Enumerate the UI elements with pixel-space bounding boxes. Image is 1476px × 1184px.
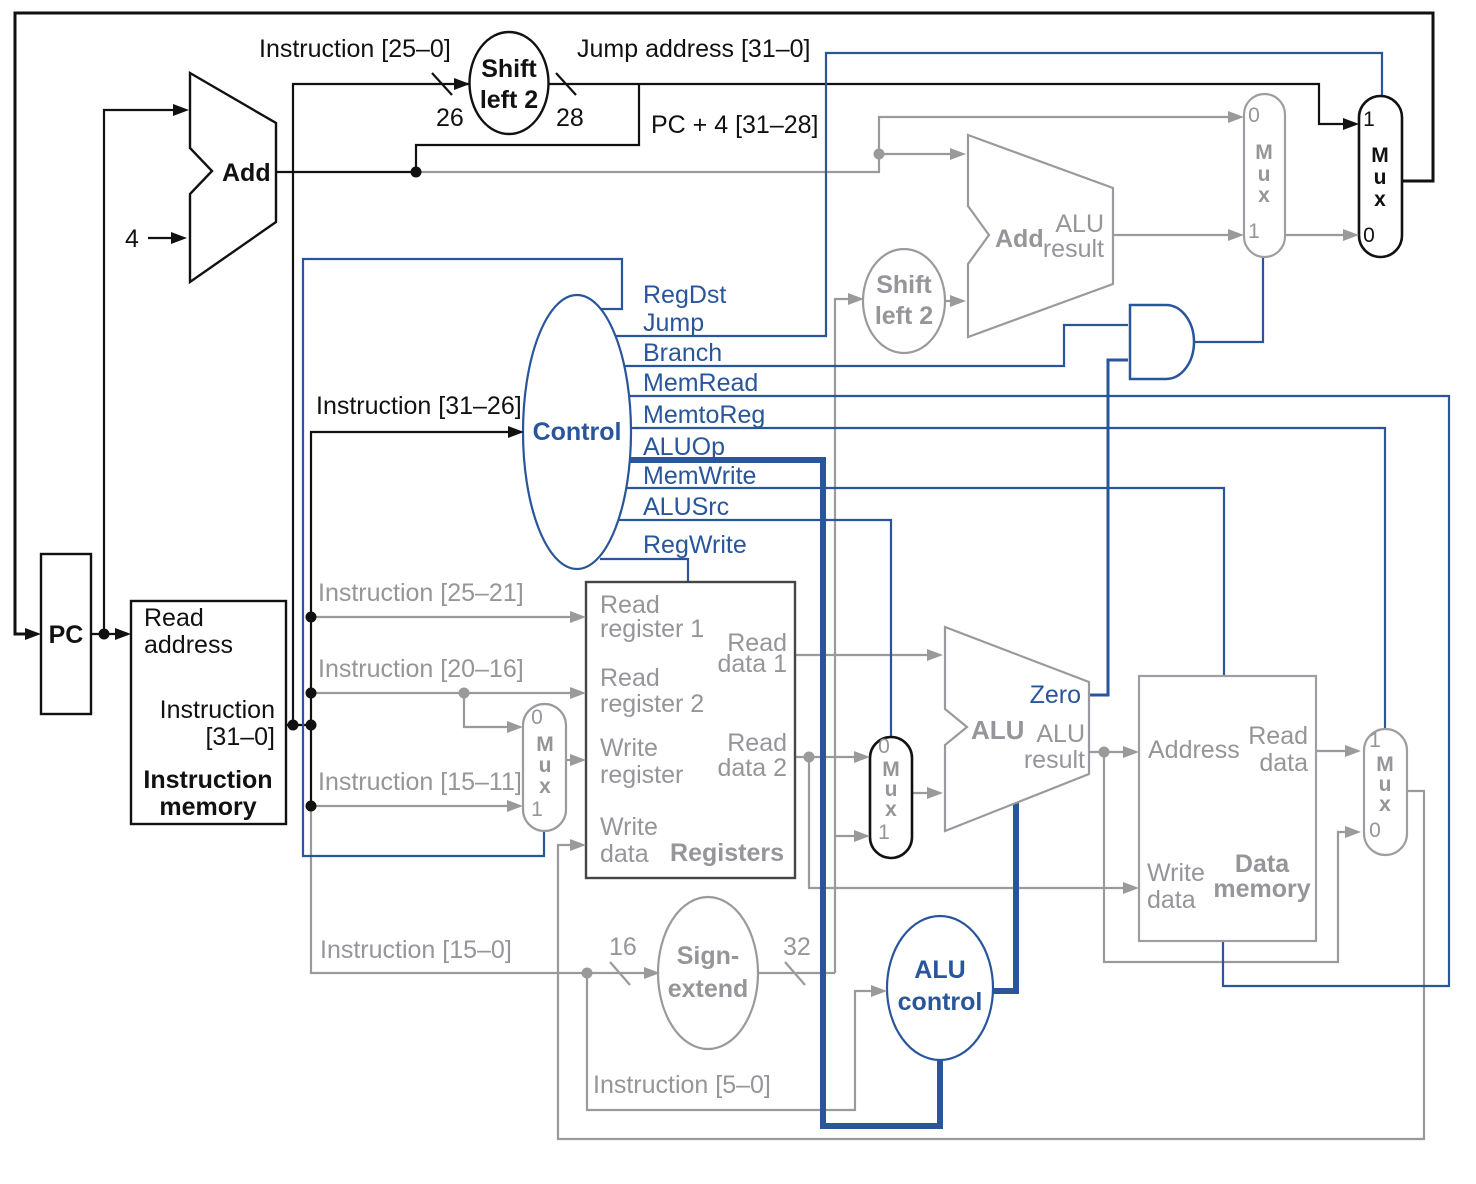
wire: MemWrite control signal to data memory bbox=[570, 488, 1224, 676]
arrowhead: into read register 1 bbox=[570, 611, 586, 623]
wire: Branch control signal to AND gate bbox=[566, 325, 1128, 366]
wire: write-back loop from final mux to registers write data bbox=[558, 791, 1424, 1139]
svg-text:RegWrite: RegWrite bbox=[643, 531, 747, 559]
final write-back mux (MemtoReg, gray) bbox=[1364, 729, 1407, 855]
arrowhead: instruction[5-0] into ALU control bbox=[871, 985, 887, 997]
branch adder (gray ALU shape) bbox=[968, 135, 1113, 337]
svg-text:Shift: Shift bbox=[876, 271, 932, 299]
wire: write-register mux output to Registers bbox=[566, 759, 582, 761]
write-register mux (RegDst) bbox=[523, 704, 566, 831]
junction: PC output bbox=[99, 629, 110, 640]
bus width slash 26 bbox=[432, 73, 452, 95]
svg-text:Control: Control bbox=[533, 418, 622, 446]
wire: Jump control signal to jump mux select bbox=[560, 53, 1382, 336]
bus width slash 32 bbox=[785, 962, 805, 985]
branch mux (gray) bbox=[1244, 94, 1285, 257]
svg-text:Add: Add bbox=[222, 159, 271, 187]
svg-text:Instruction [20–16]: Instruction [20–16] bbox=[318, 655, 524, 683]
arrowhead: instruction[25-0] into jump shift left 2 bbox=[454, 78, 470, 90]
junction: instruction[20-16] tap bbox=[306, 688, 317, 699]
junction: instruction[20-16] branch bbox=[459, 688, 470, 699]
svg-text:0: 0 bbox=[531, 706, 543, 729]
svg-text:left 2: left 2 bbox=[875, 302, 933, 330]
svg-text:Address: Address bbox=[1148, 736, 1240, 764]
svg-text:Shift: Shift bbox=[481, 55, 537, 83]
arrowhead: read data into final mux input 1 bbox=[1345, 745, 1361, 757]
wire: ALUOp thick control bus to ALU control bbox=[600, 460, 940, 1126]
svg-text:M: M bbox=[1255, 141, 1273, 164]
junction: read data 2 fan-out bbox=[804, 752, 815, 763]
arrowhead: PC+4 into branch mux input 0 bbox=[1228, 111, 1244, 123]
svg-text:memory: memory bbox=[159, 793, 256, 821]
wire: Instruction[20-16] to read register 2 bbox=[311, 692, 582, 694]
arrowhead: into branch shift left 2 bbox=[848, 293, 864, 305]
PC register bbox=[41, 554, 91, 714]
jump mux (black) bbox=[1359, 96, 1402, 257]
svg-text:Read: Read bbox=[600, 664, 660, 692]
svg-text:left 2: left 2 bbox=[480, 86, 538, 114]
svg-text:Instruction [25–21]: Instruction [25–21] bbox=[318, 579, 524, 607]
junction: instruction[15-11] tap bbox=[306, 801, 317, 812]
svg-text:address: address bbox=[144, 631, 233, 659]
AND gate for branch bbox=[1130, 305, 1194, 379]
wire: riser tap to ALUSrc mux input 1 bbox=[835, 835, 866, 837]
wire: ALU result to data memory address bbox=[1080, 751, 1135, 753]
wire: riser from sign-extend up to branch shift-left-2 bbox=[835, 299, 855, 973]
wire: RegWrite control signal to Registers bbox=[600, 559, 688, 582]
shift left 2 ellipse (branch, gray) bbox=[863, 249, 945, 353]
wire: RegDst control signal to write-register mux select bbox=[303, 259, 622, 856]
svg-text:x: x bbox=[1379, 793, 1391, 816]
junction: instruction[15-0] fan-out bbox=[582, 968, 593, 979]
wire: constant 4 into adder bbox=[148, 237, 183, 239]
svg-text:register: register bbox=[600, 761, 683, 789]
svg-text:32: 32 bbox=[783, 933, 811, 961]
svg-text:Data: Data bbox=[1235, 850, 1290, 878]
wire: MemRead control signal to data memory bbox=[570, 396, 1449, 986]
svg-text:26: 26 bbox=[436, 104, 464, 132]
svg-text:RegDst: RegDst bbox=[643, 281, 726, 309]
arrowhead: into write-register mux input 1 bbox=[507, 800, 523, 812]
svg-text:1: 1 bbox=[1248, 220, 1260, 243]
svg-text:x: x bbox=[539, 775, 551, 798]
sign-extend ellipse bbox=[658, 897, 758, 1049]
svg-text:extend: extend bbox=[668, 975, 749, 1003]
svg-text:Instruction: Instruction bbox=[143, 766, 272, 794]
arrowhead: instruction[15-0] into sign-extend bbox=[644, 967, 660, 979]
svg-text:Instruction [15–0]: Instruction [15–0] bbox=[320, 936, 512, 964]
arrowhead: into read register 2 bbox=[570, 687, 586, 699]
arrowhead: sign-extend into ALUSrc mux input 1 bbox=[854, 830, 870, 842]
wire: Instruction[31-26] to Control bbox=[311, 432, 516, 806]
junction: PC+4 to branch adder bbox=[874, 149, 885, 160]
svg-text:Write: Write bbox=[1147, 859, 1205, 887]
svg-text:PC + 4 [31–28]: PC + 4 [31–28] bbox=[651, 111, 818, 139]
svg-text:x: x bbox=[1258, 184, 1270, 207]
svg-text:u: u bbox=[1258, 163, 1271, 186]
svg-text:1: 1 bbox=[1369, 729, 1381, 752]
arrowhead: 4 into adder bbox=[171, 232, 187, 244]
wire: Instruction[25-0] from instruction fetch up to shift-left-2 bbox=[293, 84, 485, 725]
arrowhead: mux output into write register bbox=[570, 754, 586, 766]
svg-text:Branch: Branch bbox=[643, 339, 722, 367]
svg-text:M: M bbox=[536, 733, 554, 756]
svg-text:0: 0 bbox=[1363, 224, 1375, 247]
wire: jump address from shift-left-2 to jump mux input 1 bbox=[535, 84, 1355, 124]
wire: read data 2 tap down to data memory write data bbox=[809, 757, 1135, 888]
svg-text:u: u bbox=[1374, 166, 1387, 189]
svg-text:control: control bbox=[898, 988, 983, 1016]
wire: ALUSrc mux output to ALU bbox=[912, 792, 939, 794]
instruction memory box bbox=[131, 601, 286, 824]
svg-text:1: 1 bbox=[1363, 108, 1375, 131]
wire: ALU control output thick bus to ALU bbox=[980, 790, 1016, 991]
arrowhead: into write-register mux input 0 bbox=[507, 721, 523, 733]
data memory box bbox=[1139, 676, 1316, 941]
arrowhead: instruction[31-26] into control bbox=[508, 426, 524, 438]
svg-text:Sign-: Sign- bbox=[677, 942, 740, 970]
wire: ALUSrc control signal to ALUSrc mux select bbox=[566, 520, 891, 745]
wire: PC update loop from jump mux output around top border to PC input bbox=[15, 13, 1433, 634]
arrowhead: read data 1 into ALU bbox=[927, 649, 943, 661]
wire: sign-extend output to riser bbox=[700, 972, 835, 974]
svg-text:Jump: Jump bbox=[643, 309, 704, 337]
svg-text:Registers: Registers bbox=[670, 839, 784, 867]
wire: read data 2 to ALUSrc mux input 0 bbox=[795, 756, 866, 758]
svg-text:memory: memory bbox=[1213, 875, 1310, 903]
arrowhead: branch target into branch mux input 1 bbox=[1228, 229, 1244, 241]
svg-text:ALUOp: ALUOp bbox=[643, 433, 725, 461]
arrowhead: ALU result into address bbox=[1123, 746, 1139, 758]
arrowhead: into instruction memory read address bbox=[115, 628, 131, 640]
wire: Instruction[20-16] branch to write-register mux input 0 bbox=[464, 693, 519, 727]
junction: PC+4 fan-out bbox=[411, 167, 422, 178]
svg-text:MemWrite: MemWrite bbox=[643, 462, 756, 490]
svg-text:Instruction [31–26]: Instruction [31–26] bbox=[316, 392, 522, 420]
wire: ALU result bypass to final mux input 0 bbox=[1104, 752, 1357, 962]
wire: Zero flag from ALU to AND gate bbox=[1080, 360, 1128, 695]
arrowhead: PC into adder top input bbox=[173, 104, 189, 116]
svg-text:ALU: ALU bbox=[1055, 210, 1104, 238]
ALUSrc mux (black) bbox=[870, 737, 912, 858]
svg-text:data: data bbox=[600, 840, 649, 868]
wire: PC tap up to PC+4 adder top input bbox=[104, 110, 185, 634]
svg-text:ALUSrc: ALUSrc bbox=[643, 493, 729, 521]
arrowhead: write-back into write data bbox=[570, 839, 586, 851]
arrowhead: into PC bbox=[25, 628, 41, 640]
svg-text:result: result bbox=[1043, 235, 1104, 263]
svg-text:Zero: Zero bbox=[1030, 681, 1081, 709]
wire: PC output to instruction memory read address bbox=[91, 633, 128, 635]
svg-text:Write: Write bbox=[600, 734, 658, 762]
bus width slash 28 bbox=[556, 73, 576, 95]
svg-text:x: x bbox=[885, 798, 897, 821]
svg-text:28: 28 bbox=[556, 104, 584, 132]
ALU (gray trapezoid) bbox=[945, 627, 1089, 831]
shift left 2 ellipse (jump, black) bbox=[470, 32, 549, 134]
svg-text:0: 0 bbox=[1248, 104, 1260, 127]
wire: branch mux output to jump mux input 0 bbox=[1285, 234, 1355, 236]
wire: PC+4 adder output (black) to junction bbox=[276, 171, 416, 173]
svg-text:PC: PC bbox=[49, 621, 84, 649]
wire: Instruction[15-0] down and to sign-extend bbox=[311, 806, 656, 973]
svg-text:data 2: data 2 bbox=[717, 754, 787, 782]
svg-text:Instruction [15–11]: Instruction [15–11] bbox=[318, 768, 522, 796]
junction: instruction bus tap B bbox=[306, 720, 317, 731]
adder PC+4 (black ALU shape) bbox=[190, 73, 276, 282]
svg-text:ALU: ALU bbox=[914, 956, 965, 984]
svg-text:ALU: ALU bbox=[971, 715, 1024, 745]
svg-text:x: x bbox=[1374, 188, 1386, 211]
svg-text:16: 16 bbox=[609, 933, 637, 961]
wire: PC+4[31-28] elbow up to jump address line bbox=[416, 84, 639, 171]
wire: branch shift-left-2 output into gray adder bbox=[920, 300, 962, 302]
svg-text:result: result bbox=[1024, 746, 1085, 774]
wire: read data 1 to ALU bbox=[795, 654, 939, 656]
svg-text:4: 4 bbox=[125, 225, 139, 253]
svg-text:Instruction: Instruction bbox=[160, 696, 275, 724]
ALU control ellipse bbox=[887, 916, 993, 1060]
svg-text:register 2: register 2 bbox=[600, 690, 704, 718]
bus width slash 16 bbox=[610, 962, 630, 985]
junction: ALU result fan-out bbox=[1099, 747, 1110, 758]
svg-text:0: 0 bbox=[878, 735, 890, 758]
svg-text:M: M bbox=[1371, 144, 1389, 167]
svg-text:Read: Read bbox=[1248, 722, 1308, 750]
arrowhead: read data 2 into ALUSrc mux input 0 bbox=[854, 751, 870, 763]
svg-text:Write: Write bbox=[600, 813, 658, 841]
arrowhead: PC+4 into branch adder top bbox=[950, 148, 966, 160]
svg-text:[31–0]: [31–0] bbox=[205, 723, 275, 751]
wire: PC+4 branch into gray adder top input bbox=[879, 153, 962, 155]
arrowhead: branch mux output into jump mux input 0 bbox=[1343, 229, 1359, 241]
svg-text:data: data bbox=[1259, 749, 1308, 777]
wire: gray adder ALU result to branch mux input 1 bbox=[1113, 234, 1240, 236]
svg-text:Add: Add bbox=[995, 225, 1044, 253]
wire: AND gate output to branch mux select bbox=[1194, 250, 1263, 342]
control unit ellipse bbox=[523, 295, 631, 569]
svg-text:register 1: register 1 bbox=[600, 615, 704, 643]
svg-text:0: 0 bbox=[1369, 819, 1381, 842]
svg-text:Read: Read bbox=[144, 604, 204, 632]
wire: data memory read data to final mux input 1 bbox=[1316, 750, 1357, 752]
svg-text:MemtoReg: MemtoReg bbox=[643, 401, 765, 429]
arrowhead: shift output into branch adder bbox=[950, 295, 966, 307]
svg-text:1: 1 bbox=[531, 798, 543, 821]
arrowhead: ALUSrc mux output into ALU bbox=[927, 787, 943, 799]
arrowhead: ALU bypass into final mux input 0 bbox=[1345, 826, 1361, 838]
registers box bbox=[586, 582, 795, 878]
arrowhead: write data into data memory bbox=[1123, 882, 1139, 894]
junction: instruction bus tap A bbox=[288, 720, 299, 731]
svg-text:MemRead: MemRead bbox=[643, 369, 758, 397]
svg-text:data: data bbox=[1147, 886, 1196, 914]
svg-text:Jump address [31–0]: Jump address [31–0] bbox=[577, 35, 810, 63]
wire: Instruction[5-0] to ALU control bbox=[587, 973, 883, 1110]
svg-text:u: u bbox=[539, 754, 552, 777]
svg-text:Instruction [25–0]: Instruction [25–0] bbox=[259, 35, 451, 63]
svg-text:ALU: ALU bbox=[1036, 720, 1085, 748]
wire: Instruction[25-21] to read register 1 bbox=[311, 616, 582, 618]
wire: PC+4 gray line to branch adder and branch mux 0 bbox=[416, 117, 1240, 172]
svg-text:Read: Read bbox=[727, 729, 787, 757]
svg-text:Instruction [5–0]: Instruction [5–0] bbox=[593, 1071, 771, 1099]
wire: MemtoReg control signal to final mux select bbox=[572, 428, 1385, 740]
arrowhead: jump address into jump mux input 1 bbox=[1343, 118, 1359, 130]
junction: instruction[25-21] tap bbox=[306, 612, 317, 623]
wire: Instruction[15-11] to write-register mux input 1 bbox=[311, 805, 519, 807]
wire: instruction memory output bbox=[286, 724, 311, 726]
svg-text:data 1: data 1 bbox=[717, 650, 787, 678]
svg-text:1: 1 bbox=[878, 821, 890, 844]
